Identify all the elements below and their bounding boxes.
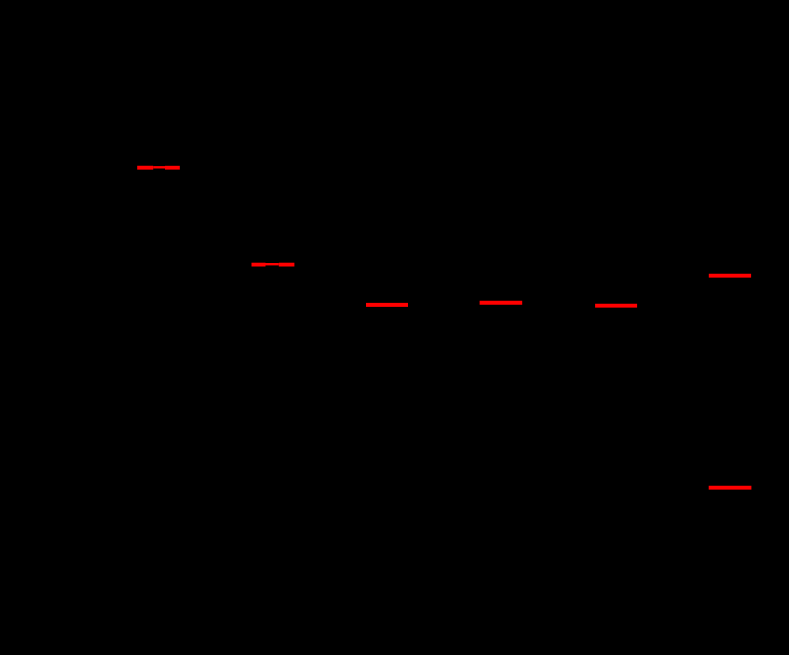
level 2 dash middle thin segment	[266, 263, 279, 265]
level 1 dash middle thin segment	[153, 166, 165, 168]
level 1 dash right segment	[165, 166, 180, 170]
level 7 dash (lower right)	[709, 486, 752, 490]
level 1 dash left segment	[137, 166, 153, 170]
level 2 dash left segment	[252, 263, 266, 267]
level 4 dash	[480, 301, 523, 305]
level 2 dash right segment	[279, 263, 295, 267]
level 6 dash (upper right)	[709, 274, 751, 278]
level 3 dash	[366, 303, 408, 307]
level 5 dash	[595, 304, 637, 308]
